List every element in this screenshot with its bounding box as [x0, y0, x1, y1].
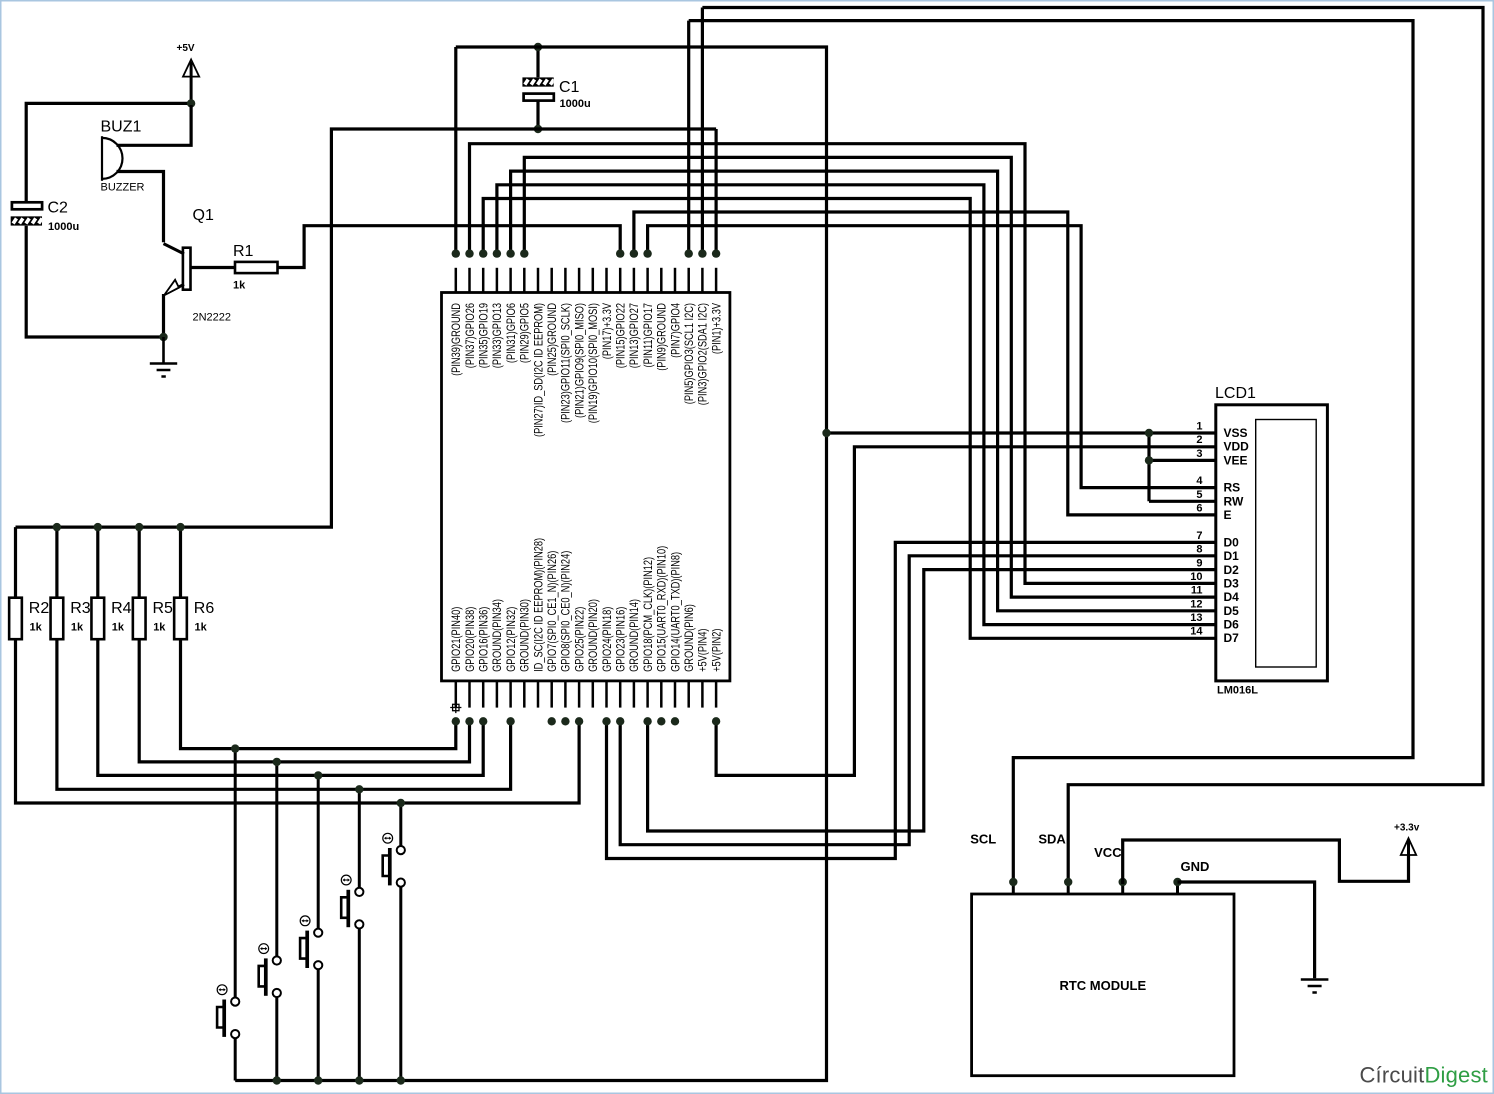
junction top pin 5 node [506, 249, 514, 257]
junction SW5 top node [397, 799, 405, 807]
svg-text:6: 6 [1196, 503, 1202, 515]
power +5V arrow [190, 77, 193, 104]
resistor R2 [9, 598, 22, 640]
svg-text:(PIN25)GROUND: (PIN25)GROUND [545, 303, 559, 376]
junction bottom pin 20 node [712, 717, 720, 725]
junction top pin 14 node [630, 249, 638, 257]
svg-text:D4: D4 [1224, 590, 1240, 604]
LCD LCD1 box [1216, 405, 1328, 681]
IC origin crosshair [450, 702, 461, 713]
RTC pin SDA [1067, 882, 1070, 894]
pin bottom 10 GPIO25(PIN22) [578, 681, 581, 708]
wire emitter to ground [162, 294, 165, 337]
junction top pin 20 node [712, 249, 720, 257]
svg-text:GPIO16(PIN36): GPIO16(PIN36) [477, 607, 491, 672]
svg-text:8: 8 [1196, 544, 1202, 556]
junction top pin 15 node [643, 249, 651, 257]
svg-text:(PIN11)GPIO17: (PIN11)GPIO17 [641, 303, 655, 368]
svg-text:(PIN1)+3.3V: (PIN1)+3.3V [709, 303, 723, 354]
svg-text:D0: D0 [1224, 535, 1240, 549]
svg-text:(PIN7)GPIO4: (PIN7)GPIO4 [668, 303, 682, 358]
wire C1 top lead [536, 47, 539, 77]
junction bottom rail node x318 [314, 1076, 322, 1084]
svg-text:(PIN15)GPIO22: (PIN15)GPIO22 [614, 303, 628, 368]
svg-text:LM016L: LM016L [1217, 685, 1258, 697]
junction top pin 3 node [479, 249, 487, 257]
junction bottom pin 2 node [465, 717, 473, 725]
junction bottom pin 8 node [548, 717, 556, 725]
wire R6 bottom lead [181, 639, 456, 748]
svg-text:VCC: VCC [1094, 845, 1122, 860]
svg-text:GROUND(PIN34): GROUND(PIN34) [490, 599, 504, 672]
svg-text:RTC MODULE: RTC MODULE [1059, 978, 1146, 993]
svg-text:2: 2 [1196, 434, 1202, 446]
junction top pin 1 node [452, 249, 460, 257]
svg-text:4: 4 [1196, 475, 1203, 487]
svg-text:SDA: SDA [1038, 832, 1066, 847]
switch SW1 (push button) [217, 749, 239, 1081]
svg-text:(PIN3)GPIO2(SDA1 I2C): (PIN3)GPIO2(SDA1 I2C) [696, 303, 710, 405]
svg-text:C2: C2 [48, 200, 69, 217]
svg-text:2N2222: 2N2222 [193, 312, 232, 324]
svg-text:(PIN9)GROUND: (PIN9)GROUND [655, 303, 669, 371]
junction resistor rail node x180 [176, 523, 184, 531]
wire Q1 base to R1 [191, 266, 236, 269]
svg-text:1k: 1k [30, 622, 43, 634]
junction bottom pin 1 node [452, 717, 460, 725]
pin top 19 (PIN3)GPIO2(SDA1 I2C) [701, 268, 704, 293]
wire R5 bottom lead [139, 639, 469, 762]
pin top 3 (PIN35)GPIO19 [482, 268, 485, 293]
pin top 15 (PIN11)GPIO17 [646, 268, 649, 293]
pin bottom 16 GPIO15(UART0_RXD)(PIN10) [660, 681, 663, 708]
svg-text:R2: R2 [29, 600, 50, 617]
svg-text:D2: D2 [1224, 563, 1240, 577]
svg-text:12: 12 [1190, 598, 1202, 610]
pin bottom 14 GROUND(PIN14) [633, 681, 636, 708]
junction +5V node [187, 99, 195, 107]
junction bottom pin 15 node [643, 717, 651, 725]
pin bottom 15 GPIO18(PCM_CLK)(PIN12) [646, 681, 649, 708]
pin top 5 (PIN31)GPIO6 [509, 268, 512, 293]
svg-text:R5: R5 [153, 600, 174, 617]
pin top 7 (PIN27)ID_SD(I2C ID EEPROM) [537, 268, 540, 293]
junction bottom pin 12 node [602, 717, 610, 725]
svg-text:BUZZER: BUZZER [101, 182, 145, 194]
svg-text:(PIN17)+3.3V: (PIN17)+3.3V [600, 303, 614, 359]
svg-text:D6: D6 [1224, 618, 1240, 632]
junction RTC SCL node [1009, 878, 1017, 886]
svg-text:+5V(PIN4): +5V(PIN4) [696, 629, 710, 672]
junction top pin 18 node [685, 249, 693, 257]
pin top 2 (PIN37)GPIO26 [468, 268, 471, 293]
wire pin1 ground stub [454, 47, 457, 257]
RTC module box [972, 894, 1234, 1076]
svg-text:(PIN13)GPIO27: (PIN13)GPIO27 [627, 303, 641, 368]
svg-text:(PIN31)GPIO6: (PIN31)GPIO6 [504, 303, 518, 363]
pin bottom 5 GPIO12(PIN32) [509, 681, 512, 708]
wire buzzer top lead [117, 105, 192, 145]
pin bottom 13 GPIO23(PIN16) [619, 681, 622, 708]
wire SDA top run [702, 8, 1483, 885]
svg-text:GPIO18(PCM_CLK)(PIN12): GPIO18(PCM_CLK)(PIN12) [641, 557, 655, 672]
wire +3.3V pin stub [714, 129, 717, 257]
junction bottom pin 13 node [616, 717, 624, 725]
pin bottom 11 GROUND(PIN20) [592, 681, 595, 708]
svg-text:RW: RW [1224, 494, 1244, 508]
resistor R1 [235, 262, 278, 273]
pin bottom 12 GPIO24(PIN18) [605, 681, 608, 708]
svg-text:GPIO24(PIN18): GPIO24(PIN18) [600, 607, 614, 672]
capacitor C2 [12, 202, 42, 209]
resistor R5 [133, 598, 146, 640]
wire R1 to GPIO22 line [278, 226, 621, 268]
svg-text:(PIN33)GPIO13: (PIN33)GPIO13 [490, 303, 504, 368]
junction bottom pin 17 node [671, 717, 679, 725]
capacitor C1 [522, 77, 554, 87]
resistor R4 [91, 598, 104, 640]
svg-text:(PIN35)GPIO19: (PIN35)GPIO19 [477, 303, 491, 368]
svg-text:1k: 1k [195, 622, 208, 634]
svg-text:(PIN5)GPIO3(SCL1 I2C): (PIN5)GPIO3(SCL1 I2C) [682, 303, 696, 404]
pin bottom 1 GPIO21(PIN40) [455, 681, 458, 708]
svg-text:BUZ1: BUZ1 [101, 119, 142, 136]
svg-text:D7: D7 [1224, 631, 1240, 645]
svg-text:GROUND(PIN20): GROUND(PIN20) [586, 599, 600, 672]
junction C1 bottom node [534, 125, 542, 133]
wire VDD line [716, 447, 1216, 776]
svg-text:GPIO20(PIN38): GPIO20(PIN38) [463, 607, 477, 672]
junction bottom pin 5 node [506, 717, 514, 725]
wire R5 top lead [138, 527, 141, 598]
svg-text:D1: D1 [1224, 549, 1240, 563]
svg-text:R1: R1 [233, 243, 254, 260]
junction SW1 top node [231, 744, 239, 752]
wire GPIO5 to D4 [524, 157, 1216, 597]
svg-text:SCL: SCL [970, 832, 996, 847]
junction bottom pin 3 node [479, 717, 487, 725]
svg-text:GPIO25(PIN22): GPIO25(PIN22) [572, 607, 586, 672]
junction resistor rail node x139 [135, 523, 143, 531]
junction RTC GND node [1173, 878, 1181, 886]
pin bottom 8 GPIO7(SPI0_CE1_N)(PIN26) [550, 681, 553, 708]
svg-text:1000u: 1000u [48, 221, 79, 233]
wire GPIO13 to D6 [497, 185, 1216, 625]
svg-text:VDD: VDD [1224, 440, 1250, 454]
IC U1 Raspberry Pi GPIO header box [442, 293, 730, 681]
svg-text:+5V: +5V [177, 43, 195, 54]
svg-text:(PIN39)GROUND: (PIN39)GROUND [449, 303, 463, 376]
switch SW2 (push button) [259, 762, 281, 1081]
svg-text:GROUND(PIN14): GROUND(PIN14) [627, 599, 641, 672]
wire VSS line [827, 431, 1216, 434]
ground (RTC) [1301, 980, 1329, 993]
ground (Q1) [150, 337, 177, 377]
svg-text:VSS: VSS [1224, 426, 1248, 440]
junction top pin 2 node [465, 249, 473, 257]
wire GPIO24 to D0 [607, 542, 1216, 858]
junction VSS tie node [1145, 429, 1153, 437]
wire R6 top lead [179, 527, 182, 598]
pin top 10 (PIN21)GPIO9(SPI0_MISO) [578, 268, 581, 293]
svg-text:1k: 1k [71, 622, 84, 634]
svg-text:GROUND(PIN30): GROUND(PIN30) [518, 599, 532, 672]
pin top 13 (PIN15)GPIO22 [619, 268, 622, 293]
svg-text:R3: R3 [70, 600, 91, 617]
svg-text:D5: D5 [1224, 604, 1240, 618]
wire GPIO23 to D1 [620, 556, 1216, 845]
svg-text:GPIO23(PIN16): GPIO23(PIN16) [614, 607, 628, 672]
svg-text:GPIO7(SPI0_CE1_N)(PIN26): GPIO7(SPI0_CE1_N)(PIN26) [545, 551, 559, 672]
wire R2 top lead [14, 527, 17, 598]
wire R3 top lead [55, 527, 58, 598]
wire +3.3V rail [16, 129, 717, 527]
svg-text:LCD1: LCD1 [1215, 385, 1256, 402]
junction SW4 top node [355, 785, 363, 793]
svg-text:3: 3 [1196, 448, 1202, 460]
buzzer BUZ1 [102, 138, 123, 179]
wire R4 bottom lead [98, 639, 483, 775]
svg-text:10: 10 [1190, 571, 1202, 583]
svg-text:C1: C1 [559, 79, 580, 96]
pin top 17 (PIN7)GPIO4 [674, 268, 677, 293]
junction gnd-VSS node [822, 429, 830, 437]
RTC pin GND [1176, 882, 1179, 894]
svg-text:1k: 1k [153, 622, 166, 634]
junction RTC SDA node [1064, 878, 1072, 886]
pin bottom 7 ID_SC(I2C ID EEPROM)(PIN28) [537, 681, 540, 708]
svg-text:9: 9 [1196, 557, 1202, 569]
wire GPIO18 to D2 [648, 570, 1216, 831]
svg-text:R4: R4 [111, 600, 132, 617]
junction emitter node [159, 333, 167, 341]
svg-text:GROUND(PIN6): GROUND(PIN6) [682, 604, 696, 672]
svg-text:+5V(PIN2): +5V(PIN2) [709, 629, 723, 672]
wire RW line [1149, 500, 1216, 503]
wire C1 bottom lead [536, 101, 539, 129]
pin bottom 2 GPIO20(PIN38) [468, 681, 471, 708]
junction RTC VCC node [1119, 878, 1127, 886]
svg-text:GPIO21(PIN40): GPIO21(PIN40) [449, 607, 463, 672]
wire buzzer bottom lead [117, 172, 164, 243]
svg-text:D3: D3 [1224, 577, 1240, 591]
svg-text:E: E [1224, 508, 1232, 522]
wire VSS-VEE-RW tie [1147, 433, 1150, 501]
junction bottom rail node x277 [273, 1076, 281, 1084]
svg-text:VEE: VEE [1224, 453, 1248, 467]
wire R4 top lead [96, 527, 99, 598]
junction VEE tie node [1145, 456, 1153, 464]
resistor R6 [174, 598, 187, 640]
svg-text:(PIN37)GPIO26: (PIN37)GPIO26 [463, 303, 477, 368]
svg-text:(PIN23)GPIO11(SPI0_SCLK): (PIN23)GPIO11(SPI0_SCLK) [559, 303, 573, 423]
svg-text:GPIO12(PIN32): GPIO12(PIN32) [504, 607, 518, 672]
svg-text:14: 14 [1190, 626, 1203, 638]
junction bottom pin 9 node [561, 717, 569, 725]
switch SW4 (push button) [341, 789, 363, 1080]
wire GPIO19 to D7 [483, 199, 1216, 639]
svg-text:ID_SC(I2C ID EEPROM)(PIN28): ID_SC(I2C ID EEPROM)(PIN28) [531, 538, 545, 672]
junction bottom pin 16 node [657, 717, 665, 725]
wire VCC to +3.3v [1123, 840, 1409, 884]
svg-text:+3.3v: +3.3v [1394, 823, 1420, 834]
svg-text:13: 13 [1190, 612, 1202, 624]
svg-text:7: 7 [1196, 530, 1202, 542]
pin top 18 (PIN5)GPIO3(SCL1 I2C) [687, 268, 690, 293]
junction top pin 13 node [616, 249, 624, 257]
wire C2 to ground rail [26, 226, 163, 337]
wire SDA pin stub [701, 8, 704, 258]
junction bottom rail node x401 [397, 1076, 405, 1084]
pin bottom 20 +5V(PIN2) [715, 681, 718, 708]
wire GPIO17 to RS [648, 226, 1216, 488]
svg-text:(PIN27)ID_SD(I2C ID EEPROM): (PIN27)ID_SD(I2C ID EEPROM) [531, 303, 545, 437]
junction top pin 4 node [493, 249, 501, 257]
RTC pin SCL [1012, 882, 1015, 894]
wire SCL top run [689, 21, 1413, 884]
svg-text:(PIN21)GPIO9(SPI0_MISO): (PIN21)GPIO9(SPI0_MISO) [572, 303, 586, 418]
junction SW3 top node [314, 771, 322, 779]
svg-text:GPIO14(UART0_TXD)(PIN8): GPIO14(UART0_TXD)(PIN8) [668, 552, 682, 672]
wire R2 bottom lead [16, 639, 580, 803]
pin bottom 17 GPIO14(UART0_TXD)(PIN8) [674, 681, 677, 708]
svg-text:1k: 1k [233, 280, 246, 292]
pin top 20 (PIN1)+3.3V [715, 268, 718, 293]
pin top 14 (PIN13)GPIO27 [633, 268, 636, 293]
svg-text:GPIO8(SPI0_CE0_N)(PIN24): GPIO8(SPI0_CE0_N)(PIN24) [559, 551, 573, 672]
transistor Q1 2N2222 [183, 248, 191, 290]
wire SCL pin stub [687, 21, 690, 257]
pin top 4 (PIN33)GPIO13 [496, 268, 499, 293]
junction resistor rail node x57 [53, 523, 61, 531]
resistor R3 [51, 598, 64, 640]
wire +5V rail to C2 [26, 103, 191, 202]
pin top 16 (PIN9)GROUND [660, 268, 663, 293]
junction bottom pin 10 node [575, 717, 583, 725]
RTC pin VCC [1121, 882, 1124, 894]
pin bottom 9 GPIO8(SPI0_CE0_N)(PIN24) [564, 681, 567, 708]
wire R3 bottom lead [57, 639, 511, 789]
pin bottom 4 GROUND(PIN34) [496, 681, 499, 708]
svg-text:1000u: 1000u [560, 98, 591, 110]
switch SW3 (push button) [300, 775, 322, 1080]
wire GPIO6 to D5 [511, 171, 1216, 611]
svg-text:11: 11 [1191, 585, 1203, 597]
svg-text:1: 1 [1196, 421, 1202, 433]
wire VEE line [1149, 459, 1216, 462]
junction bottom rail node x359 [355, 1076, 363, 1084]
svg-text:RS: RS [1224, 481, 1241, 495]
junction C1 top node [534, 43, 542, 51]
svg-text:GPIO15(UART0_RXD)(PIN10): GPIO15(UART0_RXD)(PIN10) [655, 546, 669, 672]
pin top 11 (PIN19)GPIO10(SPI0_MOSI) [592, 268, 595, 293]
wire ground rail top [235, 47, 826, 1081]
junction top pin 6 node [520, 249, 528, 257]
pin top 1 (PIN39)GROUND [455, 268, 458, 293]
pin bottom 18 GROUND(PIN6) [687, 681, 690, 708]
junction top pin 19 node [698, 249, 706, 257]
svg-text:(PIN29)GPIO5: (PIN29)GPIO5 [518, 303, 532, 363]
svg-text:5: 5 [1196, 489, 1202, 501]
svg-text:Q1: Q1 [193, 207, 214, 224]
pin bottom 6 GROUND(PIN30) [523, 681, 526, 708]
svg-text:1k: 1k [112, 622, 125, 634]
pin top 9 (PIN23)GPIO11(SPI0_SCLK) [564, 268, 567, 293]
wire GPIO27 to E [634, 212, 1216, 515]
svg-text:(PIN19)GPIO10(SPI0_MOSI): (PIN19)GPIO10(SPI0_MOSI) [586, 303, 600, 423]
pin bottom 3 GPIO16(PIN36) [482, 681, 485, 708]
switch SW5 (push button) [383, 803, 405, 1081]
pin top 12 (PIN17)+3.3V [605, 268, 608, 293]
svg-text:GND: GND [1181, 859, 1210, 874]
junction resistor rail node x98 [94, 523, 102, 531]
junction SW2 top node [273, 758, 281, 766]
svg-text:R6: R6 [194, 600, 215, 617]
svg-text:CírcuitDigest: CírcuitDigest [1359, 1063, 1488, 1088]
pin bottom 19 +5V(PIN4) [701, 681, 704, 708]
pin top 8 (PIN25)GROUND [550, 268, 553, 293]
pin top 6 (PIN29)GPIO5 [523, 268, 526, 293]
power +3.3v arrow [1401, 838, 1416, 855]
wire GPIO26 to D3 [470, 144, 1216, 584]
wire GND to ground [1178, 882, 1315, 978]
